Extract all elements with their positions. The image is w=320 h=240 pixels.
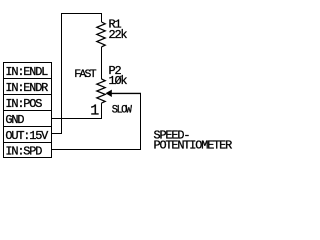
wire R1 to P2 <box>101 47 103 79</box>
wire GND to P2 pin 1 <box>52 118 103 120</box>
svg-text:OUT:15V: OUT:15V <box>5 129 49 143</box>
pin label IN:ENDL <box>5 65 48 79</box>
pin name FAST <box>74 69 97 81</box>
wire top horizontal to R1 <box>61 13 102 15</box>
svg-text:IN:POS: IN:POS <box>5 97 42 111</box>
connector row divider 4 <box>4 126 52 128</box>
svg-text:GND: GND <box>5 113 24 127</box>
wire wiper right vertical <box>140 93 142 150</box>
connector row divider 3 <box>4 110 52 112</box>
connector J1 box outline <box>4 63 52 158</box>
pin label IN:POS <box>5 97 42 111</box>
svg-text:IN:ENDR: IN:ENDR <box>5 81 48 95</box>
label 10k <box>109 74 128 88</box>
svg-text:SLOW: SLOW <box>112 104 133 117</box>
wire P2 bottom lead <box>101 103 103 119</box>
wire IN:SPD horizontal <box>52 149 142 151</box>
svg-text:IN:SPD: IN:SPD <box>5 144 42 158</box>
potentiometer wiper arrow <box>106 90 112 97</box>
pin label IN:SPD <box>5 144 42 158</box>
label 22k <box>109 28 128 42</box>
connector row divider 5 <box>4 142 52 144</box>
label SPEED- <box>154 129 190 143</box>
svg-text:1: 1 <box>90 103 99 120</box>
resistor R1 zigzag <box>97 22 105 47</box>
svg-text:1Øk: 1Øk <box>109 74 128 88</box>
wire 15V vertical riser <box>61 13 63 134</box>
svg-text:IN:ENDL: IN:ENDL <box>5 65 48 79</box>
label P2 <box>109 64 122 78</box>
connector row divider 2 <box>4 94 52 96</box>
pin label OUT:15V <box>5 129 49 143</box>
wire OUT:15V stub <box>52 133 63 135</box>
potentiometer P2 zigzag <box>97 79 105 103</box>
pin name SLOW <box>112 104 133 117</box>
label R1 <box>109 18 122 32</box>
pin label GND <box>5 113 24 127</box>
svg-text:POTENTIOMETER: POTENTIOMETER <box>154 139 233 153</box>
label POTENTIOMETER <box>154 139 233 153</box>
pin number 1 <box>90 103 99 120</box>
wire wiper horizontal <box>111 92 141 94</box>
svg-text:22k: 22k <box>109 28 128 42</box>
pin label IN:ENDR <box>5 81 48 95</box>
svg-text:FAST: FAST <box>74 69 97 81</box>
connector row divider 1 <box>4 78 52 80</box>
wire R1 top lead <box>101 13 103 22</box>
